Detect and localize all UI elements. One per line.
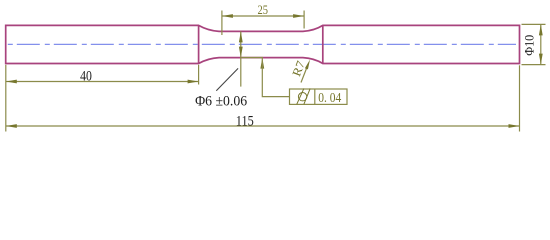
centerline (axis) <box>8 43 516 45</box>
leader D6 text <box>216 68 238 90</box>
tolerance frame leader arrow <box>260 58 264 69</box>
svg-text:0. 04: 0. 04 <box>318 91 341 106</box>
arrow D6 top <box>239 31 243 42</box>
svg-text:40: 40 <box>80 69 92 85</box>
leader R7 <box>301 65 308 83</box>
dimension line 25 <box>222 15 304 17</box>
cylindricity symbol left slash <box>297 88 304 104</box>
extension line left (shared 40/115) <box>5 65 7 132</box>
olive edge overlap segment <box>241 57 263 59</box>
tolerance frame divider <box>314 89 316 104</box>
left shoulder edge line <box>198 25 200 63</box>
cylindricity symbol circle <box>298 93 306 101</box>
arrow D10 top <box>539 24 543 35</box>
tolerance frame leader <box>262 58 289 97</box>
arrow 25 left <box>222 14 233 18</box>
dimension line D6 vertical <box>240 31 242 86</box>
tolerance frame box <box>290 89 348 104</box>
svg-text:25: 25 <box>257 2 268 17</box>
extension line right (115) <box>519 65 521 131</box>
shaft outline <box>6 25 520 63</box>
arrow 115 left <box>6 124 17 128</box>
arrow D10 bottom <box>539 54 543 65</box>
extension line 25 right <box>303 11 305 29</box>
extension line D10 bottom <box>522 64 546 66</box>
extension line D10 top <box>522 23 546 25</box>
cylindricity symbol right slash <box>304 88 310 104</box>
extension line 25 left <box>221 11 223 36</box>
extension line at left shoulder (40) <box>198 65 200 85</box>
arrow 40 right <box>188 80 199 84</box>
svg-text:115: 115 <box>236 114 254 130</box>
arrow 25 right <box>293 14 304 18</box>
dimension line D10 <box>540 24 542 64</box>
dimension line 40 <box>6 81 199 83</box>
arrow R7 <box>305 60 310 70</box>
arrow D6 bottom <box>239 47 243 58</box>
arrow 40 left <box>6 80 17 84</box>
dimension line 115 <box>6 125 520 127</box>
right shoulder edge line <box>322 25 324 63</box>
svg-text:Φ6 ±0.06: Φ6 ±0.06 <box>195 94 247 110</box>
svg-text:Φ10: Φ10 <box>522 35 537 56</box>
arrow 115 right <box>509 124 520 128</box>
